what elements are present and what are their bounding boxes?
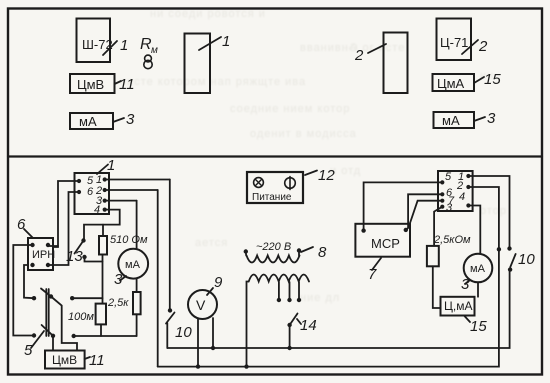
- svg-text:м: м: [151, 45, 158, 56]
- svg-text:15: 15: [484, 71, 501, 88]
- svg-text:15: 15: [470, 318, 487, 335]
- svg-text:13: 13: [66, 248, 83, 265]
- svg-text:8: 8: [318, 244, 327, 261]
- svg-text:3: 3: [126, 111, 135, 128]
- svg-text:10: 10: [175, 324, 192, 341]
- svg-text:2: 2: [478, 38, 488, 55]
- svg-text:3: 3: [461, 276, 470, 293]
- svg-text:5: 5: [445, 171, 452, 183]
- svg-text:11: 11: [89, 352, 105, 369]
- svg-text:ЦмВ: ЦмВ: [52, 353, 77, 367]
- svg-text:мА: мА: [79, 114, 97, 129]
- svg-text:мА: мА: [470, 263, 486, 275]
- svg-text:7: 7: [368, 266, 377, 283]
- svg-text:14: 14: [300, 317, 317, 334]
- svg-text:9: 9: [214, 274, 223, 291]
- svg-text:ЦмА: ЦмА: [437, 76, 465, 91]
- svg-text:2,5к: 2,5к: [107, 297, 129, 309]
- svg-text:4: 4: [94, 204, 100, 216]
- svg-text:10: 10: [518, 251, 535, 268]
- svg-text:2: 2: [354, 47, 364, 64]
- svg-text:11: 11: [119, 76, 135, 93]
- svg-text:6: 6: [87, 186, 94, 198]
- svg-text:3: 3: [487, 110, 496, 127]
- svg-text:V: V: [196, 297, 206, 313]
- svg-text:мА: мА: [125, 259, 141, 271]
- svg-text:100м: 100м: [68, 311, 94, 323]
- svg-text:12: 12: [318, 167, 335, 184]
- svg-text:1: 1: [222, 33, 230, 50]
- svg-text:МСР: МСР: [371, 236, 400, 251]
- svg-text:2,5кОм: 2,5кОм: [433, 234, 471, 246]
- svg-text:мА: мА: [442, 113, 460, 128]
- svg-text:3: 3: [446, 202, 453, 214]
- svg-text:Питание: Питание: [252, 192, 292, 203]
- svg-text:3: 3: [114, 271, 123, 288]
- svg-text:ЦмВ: ЦмВ: [77, 77, 104, 92]
- svg-text:Ц,мА: Ц,мА: [444, 299, 472, 313]
- svg-text:6: 6: [17, 216, 26, 233]
- svg-text:1: 1: [120, 37, 128, 54]
- svg-text:4: 4: [459, 191, 465, 203]
- svg-text:1: 1: [107, 157, 115, 174]
- svg-text:510 Ом: 510 Ом: [110, 234, 148, 246]
- svg-text:Ш-72: Ш-72: [82, 37, 113, 52]
- svg-text:ИРН: ИРН: [32, 249, 55, 261]
- svg-text:Ц-71: Ц-71: [440, 35, 468, 50]
- svg-text:5: 5: [24, 342, 33, 359]
- svg-text:~220 В: ~220 В: [256, 241, 291, 253]
